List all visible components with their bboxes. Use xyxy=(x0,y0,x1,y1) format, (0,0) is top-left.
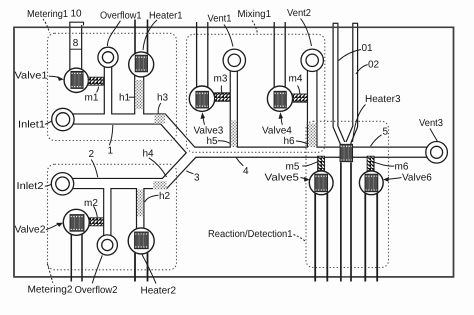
valve V6 lead wires xyxy=(365,185,377,282)
leader Inlet2 xyxy=(45,184,52,186)
valve V2 xyxy=(63,209,89,235)
port Vent1 ring xyxy=(223,49,245,71)
heater H2 lead wires xyxy=(135,253,148,282)
svg-text:Vent1: Vent1 xyxy=(208,14,232,25)
svg-text:Inlet2: Inlet2 xyxy=(17,181,44,192)
leader Heater3 xyxy=(353,105,366,143)
leader Vent2 xyxy=(301,19,312,47)
mixing unit dashed box xyxy=(187,34,325,152)
svg-text:Metering2: Metering2 xyxy=(28,285,73,296)
arrowhead Valve2 xyxy=(56,223,63,227)
svg-text:Valve4: Valve4 xyxy=(262,125,292,136)
svg-text:h5: h5 xyxy=(207,136,219,147)
arrowhead Valve1 xyxy=(58,76,64,81)
substrate outer border xyxy=(14,27,454,277)
svg-text:Vent2: Vent2 xyxy=(287,8,311,19)
valve V1 xyxy=(64,68,88,92)
port Overflow1 ring xyxy=(98,47,118,67)
leader Inlet1 xyxy=(45,121,52,125)
svg-text:h2: h2 xyxy=(159,191,171,202)
svg-text:Mixing1: Mixing1 xyxy=(238,9,272,20)
svg-text:3: 3 xyxy=(194,173,200,184)
svg-text:m4: m4 xyxy=(289,74,303,85)
leader Vent1 xyxy=(224,25,233,47)
svg-text:Heater3: Heater3 xyxy=(365,94,401,105)
valve V6 xyxy=(359,171,383,195)
svg-text:Valve5: Valve5 xyxy=(265,173,300,184)
arrowhead Valve4 xyxy=(279,112,284,119)
svg-text:m6: m6 xyxy=(395,162,409,173)
leader 3 xyxy=(186,171,193,174)
valve section m4 hatch xyxy=(292,94,307,102)
svg-text:m2: m2 xyxy=(84,198,98,209)
svg-text:8: 8 xyxy=(73,38,79,49)
leader Valve4 xyxy=(281,118,282,125)
leader m4 xyxy=(298,86,300,94)
metering unit 2 dashed box xyxy=(48,164,177,269)
leader Reaction/Detection1 xyxy=(294,235,305,241)
svg-text:Reaction/Detection1: Reaction/Detection1 xyxy=(208,229,293,240)
svg-text:Inlet1: Inlet1 xyxy=(18,120,45,131)
svg-text:Heater2: Heater2 xyxy=(141,286,177,297)
leader Valve2 xyxy=(46,225,58,230)
leader Valve6 xyxy=(387,178,402,180)
leader Overflow1 xyxy=(107,21,120,46)
valve section m6 hatch xyxy=(367,156,374,170)
valve V2 lead wires xyxy=(71,230,82,282)
leader Metering2 xyxy=(47,264,53,283)
leader Valve3 xyxy=(203,118,204,125)
port Vent3 ring xyxy=(426,142,448,164)
leader Metering1 xyxy=(43,19,50,33)
svg-text:h4: h4 xyxy=(143,148,155,159)
svg-text:m5: m5 xyxy=(286,162,300,173)
valve section m3 hatch xyxy=(215,93,230,102)
svg-text:01: 01 xyxy=(362,43,374,54)
channel 02 top cap xyxy=(352,22,358,24)
channel 10 top bracket xyxy=(69,22,84,25)
heater section h5 stipple xyxy=(231,121,237,148)
metering unit 1 dashed box xyxy=(48,33,177,140)
svg-text:5: 5 xyxy=(383,127,389,138)
reaction/detection unit dashed box xyxy=(306,121,389,267)
svg-text:Valve6: Valve6 xyxy=(402,173,432,184)
valve V4 xyxy=(267,86,292,111)
leader Overflow2 xyxy=(92,255,102,283)
heater section h2 stipple xyxy=(137,190,143,217)
svg-text:Overflow2: Overflow2 xyxy=(75,285,118,296)
label 8 underline xyxy=(71,48,82,50)
leader Valve1 xyxy=(49,76,59,78)
arrowhead Valve6 xyxy=(383,177,389,182)
leader h3 xyxy=(158,103,161,114)
leader m1 xyxy=(97,87,99,93)
wire channels: white interior pass xyxy=(63,24,437,282)
svg-text:Heater1: Heater1 xyxy=(149,11,183,22)
leader h2 xyxy=(145,195,159,202)
port Inlet2 ring xyxy=(51,173,73,195)
mixing channel walls below heater H3 xyxy=(341,163,351,282)
heater H1 lead wires xyxy=(135,20,148,56)
svg-text:Valve2: Valve2 xyxy=(15,225,46,236)
svg-text:h3: h3 xyxy=(157,92,169,103)
leader m6 xyxy=(375,162,395,166)
svg-text:Valve1: Valve1 xyxy=(15,71,48,82)
heater section h3 stipple xyxy=(154,114,165,123)
heater H3 on mixing channel xyxy=(340,144,353,161)
svg-text:Valve3: Valve3 xyxy=(194,125,224,136)
leader m2 xyxy=(94,206,98,217)
leader Heater2 xyxy=(142,255,156,284)
leader h4 xyxy=(149,158,167,177)
svg-text:10: 10 xyxy=(71,9,83,20)
heater H1 xyxy=(129,52,154,77)
valve section m1 hatch xyxy=(88,77,103,85)
valve V3 lead wires xyxy=(197,22,208,88)
valve V4 lead wires xyxy=(274,22,285,88)
svg-text:h1: h1 xyxy=(119,93,131,104)
heater H2 xyxy=(128,228,154,254)
leader Vent3 xyxy=(430,129,437,142)
leader h1 xyxy=(129,96,135,98)
leader 1 xyxy=(109,125,113,145)
leader h5 xyxy=(218,141,230,144)
leader 01 xyxy=(339,50,361,61)
svg-text:Metering1: Metering1 xyxy=(27,9,68,20)
substrate outer border (redraw over channel crossings) xyxy=(14,27,454,277)
svg-text:h6: h6 xyxy=(284,136,296,147)
valve V5 lead wires xyxy=(315,185,327,282)
svg-text:Vent3: Vent3 xyxy=(419,118,443,129)
leader 2 xyxy=(91,160,98,178)
wire channels: black wall pass xyxy=(63,24,437,282)
svg-text:2: 2 xyxy=(89,149,95,160)
valve V3 xyxy=(189,86,214,111)
svg-text:02: 02 xyxy=(368,60,380,71)
svg-text:Overflow1: Overflow1 xyxy=(100,11,142,22)
arrowhead Valve3 xyxy=(201,112,206,119)
valve V5 xyxy=(309,171,333,195)
leader 02 xyxy=(356,65,368,75)
heater section h4 stipple xyxy=(153,181,167,189)
valve section m2 hatch xyxy=(89,218,103,226)
arrowhead Valve5 xyxy=(304,177,310,182)
heater section h6 stipple xyxy=(308,124,316,148)
leader Valve5 xyxy=(301,178,307,180)
svg-text:1: 1 xyxy=(108,146,114,157)
leader h6 xyxy=(296,141,307,144)
leader Heater1 xyxy=(143,20,157,50)
heater section h1 stipple xyxy=(135,80,143,109)
leader 4 xyxy=(236,158,243,166)
port Inlet1 ring xyxy=(52,108,74,130)
svg-text:m1: m1 xyxy=(85,93,99,104)
leader 5 xyxy=(371,135,382,147)
leader m5 xyxy=(302,162,317,166)
leader lines xyxy=(43,19,437,284)
leader Mixing1 xyxy=(252,21,258,34)
valve section m5 hatch xyxy=(318,156,325,170)
port Vent2 ring xyxy=(301,49,323,71)
svg-text:m3: m3 xyxy=(214,74,228,85)
svg-text:4: 4 xyxy=(243,166,249,177)
leader m3 xyxy=(220,86,222,93)
channel 01 top cap xyxy=(333,22,339,24)
port Overflow2 ring xyxy=(97,235,117,255)
